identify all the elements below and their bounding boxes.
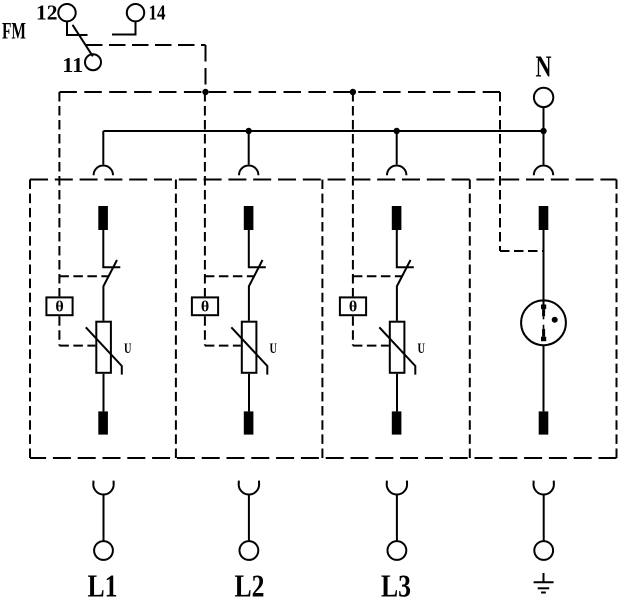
svg-text:FM: FM [2, 19, 26, 44]
svg-text:12: 12 [36, 0, 58, 24]
svg-text:L1: L1 [88, 568, 118, 604]
svg-text:L3: L3 [381, 568, 411, 604]
svg-text:11: 11 [62, 53, 83, 77]
svg-text:L2: L2 [235, 568, 265, 604]
svg-text:N: N [536, 49, 552, 84]
svg-text:14: 14 [149, 0, 166, 24]
